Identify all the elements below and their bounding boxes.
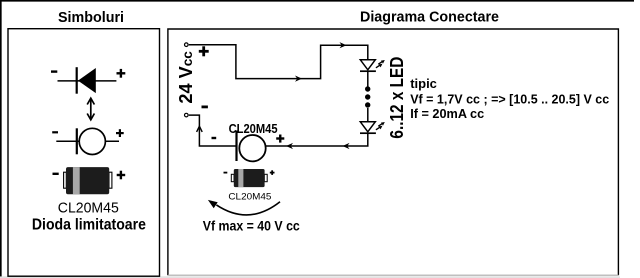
svg-text:6..12 x LED: 6..12 x LED: [387, 57, 407, 139]
svg-text:CL20M45: CL20M45: [229, 121, 278, 136]
svg-text:24 Vcc: 24 Vcc: [176, 51, 196, 104]
svg-text:Vf = 1,7V cc ; => [10.5 .. 20.: Vf = 1,7V cc ; => [10.5 .. 20.5] V cc: [410, 92, 609, 107]
svg-text:Vf max = 40 V cc: Vf max = 40 V cc: [203, 218, 300, 233]
svg-text:Dioda limitatoare: Dioda limitatoare: [32, 216, 146, 233]
svg-text:CL20M45: CL20M45: [58, 199, 119, 216]
svg-text:Simboluri: Simboluri: [58, 10, 124, 26]
svg-text:Diagrama Conectare: Diagrama Conectare: [360, 10, 499, 26]
svg-text:CL20M45: CL20M45: [228, 192, 271, 203]
svg-text:If = 20mA cc: If = 20mA cc: [410, 106, 484, 121]
svg-text:tipic: tipic: [410, 76, 437, 91]
